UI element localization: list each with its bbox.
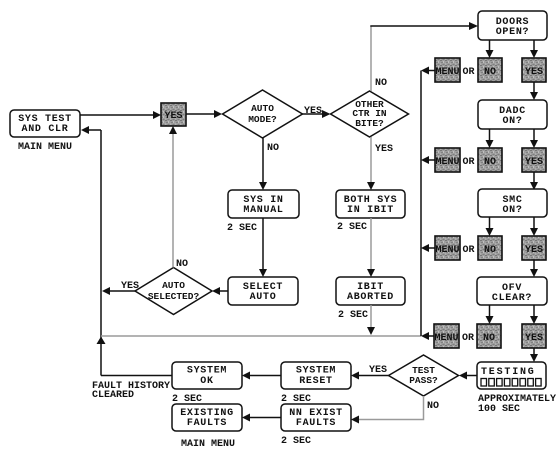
wire TEST PASS no down and left to NN EXIST FAULTS bbox=[351, 396, 424, 424]
svg-text:2 SEC: 2 SEC bbox=[337, 222, 367, 233]
wire MENU row3 to collector bbox=[421, 244, 435, 252]
diamond AUTO MODE? bbox=[223, 90, 303, 138]
svg-text:NO: NO bbox=[484, 245, 496, 256]
wire main vertical return line bbox=[100, 130, 102, 376]
wire SELECT AUTO to AUTO SELECTED diamond bbox=[212, 287, 228, 295]
wire BOTH SYS to IBIT ABORTED bbox=[367, 218, 375, 277]
button YES row1 bbox=[522, 58, 546, 82]
wire collector vertical bbox=[420, 71, 422, 337]
svg-text:MAIN MENU: MAIN MENU bbox=[18, 142, 72, 153]
svg-text:MENU: MENU bbox=[435, 157, 459, 168]
svg-text:SYSTEM: SYSTEM bbox=[296, 366, 336, 377]
svg-text:AND CLR: AND CLR bbox=[22, 124, 69, 135]
svg-text:OK: OK bbox=[200, 376, 213, 387]
wire MENU row1 to collector bbox=[421, 67, 435, 75]
button NO row2 bbox=[478, 148, 502, 172]
wire DOORS to NO btn bbox=[486, 40, 494, 58]
wire OFV to YES btn bbox=[530, 305, 538, 324]
box SYS TEST AND CLR bbox=[10, 110, 80, 137]
button MENU row2 bbox=[435, 148, 460, 172]
diamond TEST PASS? bbox=[389, 355, 459, 396]
wire AUTO MODE yes to OTHER CTR diamond bbox=[303, 110, 331, 118]
svg-text:RESET: RESET bbox=[299, 376, 333, 387]
svg-text:NO: NO bbox=[484, 157, 496, 168]
wire DADC to YES btn bbox=[530, 129, 538, 148]
button NO row1 bbox=[478, 58, 502, 82]
wire SMC to NO btn bbox=[486, 217, 494, 236]
svg-text:YES: YES bbox=[525, 67, 543, 78]
svg-text:MANUAL: MANUAL bbox=[243, 205, 283, 216]
svg-text:NO: NO bbox=[176, 259, 188, 270]
wire TESTING to TEST PASS diamond bbox=[459, 372, 477, 380]
wire NN EXIST to EXISTING FAULTS bbox=[242, 414, 281, 422]
wire main vertical into SYS TEST box bbox=[81, 126, 101, 134]
svg-text:TESTING: TESTING bbox=[481, 367, 536, 378]
box SYSTEM OK bbox=[172, 362, 242, 389]
button YES row3 bbox=[522, 236, 546, 260]
svg-text:2 SEC: 2 SEC bbox=[338, 310, 368, 321]
svg-text:OR: OR bbox=[462, 67, 474, 78]
svg-text:OPEN?: OPEN? bbox=[496, 27, 530, 38]
wire AUTO SELECTED yes left to main vertical bbox=[102, 287, 135, 295]
svg-text:ON?: ON? bbox=[502, 116, 522, 127]
wire AUTO MODE no down to SYS IN MANUAL bbox=[259, 138, 267, 190]
svg-text:MENU: MENU bbox=[435, 245, 459, 256]
box SMC ON? bbox=[478, 189, 547, 217]
button MENU row3 bbox=[435, 236, 460, 260]
svg-text:YES: YES bbox=[525, 333, 543, 344]
svg-text:CLEARED: CLEARED bbox=[92, 390, 134, 401]
box NN EXIST FAULTS bbox=[281, 404, 351, 431]
svg-text:FAULTS: FAULTS bbox=[296, 418, 336, 429]
svg-text:OR: OR bbox=[462, 245, 474, 256]
svg-text:OR: OR bbox=[462, 333, 474, 344]
svg-text:YES: YES bbox=[375, 144, 393, 155]
svg-text:FAULTS: FAULTS bbox=[187, 418, 227, 429]
svg-text:ABORTED: ABORTED bbox=[347, 292, 394, 303]
wire TEST PASS yes to SYSTEM RESET bbox=[351, 372, 389, 380]
wire SMC to YES btn bbox=[530, 217, 538, 236]
wire YES4 to TESTING bbox=[530, 348, 538, 362]
wire YES button to AUTO MODE diamond bbox=[186, 110, 222, 118]
svg-text:SELECTED?: SELECTED? bbox=[148, 291, 200, 302]
svg-text:2 SEC: 2 SEC bbox=[281, 436, 311, 447]
wire YES1 to DADC bbox=[530, 82, 538, 100]
wire DADC to NO btn bbox=[486, 129, 494, 148]
diamond AUTO SELECTED? bbox=[135, 268, 212, 315]
button NO row4 bbox=[477, 324, 501, 348]
svg-text:MAIN MENU: MAIN MENU bbox=[181, 439, 235, 450]
svg-text:IN IBIT: IN IBIT bbox=[347, 205, 394, 216]
wire OTHER CTR yes down to BOTH SYS bbox=[367, 137, 375, 190]
svg-text:YES: YES bbox=[369, 365, 387, 376]
svg-text:YES: YES bbox=[525, 245, 543, 256]
wire SYSTEM OK left to main vertical bbox=[101, 375, 172, 377]
box IBIT ABORTED bbox=[336, 277, 405, 305]
svg-text:NO: NO bbox=[484, 67, 496, 78]
box SYSTEM RESET bbox=[281, 362, 351, 389]
wire gray return horizontal bbox=[101, 335, 421, 337]
svg-text:ON?: ON? bbox=[502, 205, 522, 216]
svg-text:PASS?: PASS? bbox=[409, 375, 438, 386]
wire YES3 to OFV bbox=[530, 260, 538, 277]
svg-text:BITE?: BITE? bbox=[355, 118, 384, 129]
svg-text:AUTO: AUTO bbox=[162, 280, 185, 291]
svg-text:NO: NO bbox=[267, 143, 279, 154]
svg-text:YES: YES bbox=[164, 111, 182, 122]
wire top horizontal to DOORS OPEN bbox=[370, 22, 478, 30]
wire MENU row2 to collector bbox=[421, 156, 435, 164]
box DADC ON? bbox=[478, 100, 547, 129]
wire IBIT ABORTED down to gray return line bbox=[367, 305, 375, 335]
wire MENU row4 to collector bbox=[421, 332, 434, 340]
button MENU row4 bbox=[434, 324, 459, 348]
box TESTING with progress squares bbox=[477, 362, 546, 389]
svg-text:YES: YES bbox=[304, 106, 322, 117]
box OFV CLEAR? bbox=[477, 277, 547, 305]
wire YES2 to SMC bbox=[530, 172, 538, 190]
wire OFV to NO btn bbox=[486, 305, 494, 324]
svg-text:NO: NO bbox=[427, 401, 439, 412]
box EXISTING FAULTS bbox=[172, 404, 242, 431]
box BOTH SYS IN IBIT bbox=[336, 190, 405, 218]
svg-text:AUTO: AUTO bbox=[250, 292, 277, 303]
wire SYS IN MANUAL to SELECT AUTO bbox=[259, 218, 267, 277]
wire SYS TEST to YES button bbox=[80, 111, 161, 119]
svg-text:MENU: MENU bbox=[435, 67, 459, 78]
box SYS IN MANUAL bbox=[228, 190, 299, 218]
svg-text:SYSTEM: SYSTEM bbox=[187, 366, 227, 377]
svg-text:NO: NO bbox=[483, 333, 495, 344]
svg-text:MENU: MENU bbox=[434, 333, 458, 344]
svg-text:MODE?: MODE? bbox=[248, 114, 277, 125]
box SELECT AUTO bbox=[228, 277, 298, 305]
button NO row3 bbox=[478, 236, 502, 260]
wire AUTO SELECTED no up to YES button bbox=[169, 126, 177, 268]
svg-text:100 SEC: 100 SEC bbox=[478, 404, 520, 415]
wire DOORS to YES btn bbox=[530, 40, 538, 58]
button MENU row1 bbox=[435, 58, 460, 82]
junction arrow up on main vertical bbox=[97, 337, 106, 345]
wire OTHER CTR no up bbox=[370, 26, 372, 91]
box DOORS OPEN? bbox=[478, 11, 547, 40]
svg-text:AUTO: AUTO bbox=[251, 103, 274, 114]
svg-text:NO: NO bbox=[375, 78, 387, 89]
button YES row4 bbox=[522, 324, 546, 348]
button YES row2 bbox=[522, 148, 546, 172]
svg-text:YES: YES bbox=[525, 157, 543, 168]
svg-text:2 SEC: 2 SEC bbox=[227, 223, 257, 234]
wire SYSTEM RESET to SYSTEM OK bbox=[242, 372, 281, 380]
svg-text:OR: OR bbox=[462, 157, 474, 168]
diamond OTHER CTR IN BITE? bbox=[331, 91, 409, 137]
svg-text:CLEAR?: CLEAR? bbox=[492, 293, 532, 304]
button YES (main) bbox=[161, 103, 186, 126]
